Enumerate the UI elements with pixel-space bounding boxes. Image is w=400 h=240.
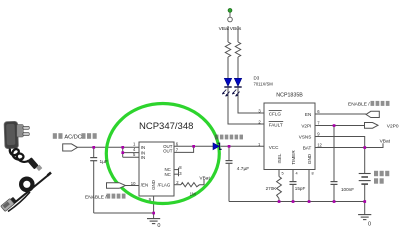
wire: C4 branch from V2P0 node (333, 126, 335, 182)
svg-text:ISEL: ISEL (277, 153, 282, 163)
wire: VSNS pin 9 to BAT net (315, 137, 365, 148)
resistor R4 (VBat column) (225, 42, 230, 57)
label: U2 pin numbers 3 2 1 (258, 108, 261, 146)
wire: VBus column mid (237, 57, 239, 78)
svg-text:OUT: OUT (163, 149, 173, 154)
wire: NC pin 8 stub (174, 169, 179, 171)
label: U2 FAULT pin with overline (269, 122, 284, 128)
svg-text:1µF: 1µF (100, 159, 108, 165)
wire: V2P0 pin 7 to port (315, 125, 365, 127)
node: junction pin4 branch (121, 151, 124, 154)
node: junction R3/rail (278, 200, 281, 203)
label: U2 bottom pins ISEL TIMER GND (277, 150, 312, 165)
resistor R5 (VBus column) (235, 42, 240, 57)
label: 肖特基二极管 (schottky diode) (215, 135, 243, 140)
wire: right ground rail (229, 201, 365, 203)
node: junction left ground (152, 212, 155, 215)
label: ENABLE /背光模块 (bottom left) (85, 194, 126, 201)
green highlight circle (106, 104, 219, 204)
wire: VBus column to CFLG pin 3 (238, 88, 264, 113)
svg-text:BAT: BAT (303, 146, 312, 151)
photo: coiled USB cable second strand (8, 192, 30, 212)
svg-text:15pF: 15pF (295, 186, 306, 191)
op-amp U1 NCP347/348 box (139, 142, 174, 196)
svg-text:EN: EN (305, 112, 311, 117)
node: junction C3/rail (292, 200, 295, 203)
wire: C4 bottom lead (333, 185, 335, 202)
svg-text:GND: GND (151, 180, 156, 190)
svg-text:GND: GND (307, 153, 312, 164)
svg-text:1M: 1M (190, 191, 196, 196)
resistor R3 270K (ISEL) (277, 177, 282, 199)
svg-text:270K: 270K (266, 186, 278, 191)
wire: input port to IN pin 1 (77, 146, 139, 148)
label: U1 OUT pins (163, 144, 173, 154)
capacitor C4 100nF (331, 182, 338, 185)
wire: to pin 5 (123, 156, 139, 158)
photo: adapter cable knot (10, 149, 29, 162)
photo: wall AC/DC adapter body (4, 121, 23, 148)
svg-text:D3: D3 (254, 76, 260, 81)
node: junction GND/rail (308, 200, 311, 203)
label: U1 pin numbers 6 7 (176, 141, 179, 152)
svg-text:ENABLE /: ENABLE / (348, 102, 370, 108)
wire: VBat column top (227, 26, 229, 42)
wire: right ground stem (364, 202, 366, 215)
wire: C1 bottom lead to ground rail (93, 161, 95, 213)
photo: adapter cable mini-USB connector (27, 157, 42, 171)
svg-text:NCP347/348: NCP347/348 (139, 121, 193, 132)
svg-text:VCC: VCC (269, 145, 279, 150)
node: junction VSNS/BAT (363, 146, 366, 149)
svg-text:ENABLE /: ENABLE / (85, 194, 107, 200)
svg-text:VSNS: VSNS (299, 135, 312, 140)
node: junction battery/rail (363, 200, 366, 203)
LED D2 (VBus column) (232, 78, 242, 96)
svg-text:5: 5 (282, 172, 284, 176)
svg-text:VBat: VBat (380, 138, 391, 144)
wire: VBus column top (237, 26, 239, 42)
label: U1 pin numbers 1 4 5 (133, 141, 136, 157)
wire: C1 top lead (93, 147, 95, 157)
photo: USB-A plug bottom-left (1, 197, 17, 212)
svg-text:10: 10 (131, 181, 136, 186)
wire: battery bottom lead (364, 184, 366, 201)
capacitor C3 15pF (290, 182, 297, 185)
svg-text:8: 8 (312, 172, 314, 176)
op-amp U2 NCP1835B box (264, 103, 315, 170)
wire: OUT pin 6 to diode anode (174, 145, 213, 147)
svg-text:VBat: VBat (199, 175, 210, 181)
wire: C2 bottom lead (228, 164, 230, 202)
wire: battery top lead (364, 148, 366, 174)
resistor R2 1M (/FLAG pull-up) (181, 183, 200, 187)
svg-text:TIMER: TIMER (291, 150, 296, 165)
photo: adapter plug prongs (23, 126, 29, 135)
svg-text:4: 4 (296, 172, 298, 176)
wire: U1 GND pin stub to ground (153, 196, 155, 218)
wire: GND pin stub U2 (308, 170, 310, 202)
test point / power flag at top (228, 9, 233, 22)
label: NC pin numbers 8 3 (179, 165, 182, 176)
svg-text:CFLG: CFLG (269, 111, 282, 116)
label: 锂离子 电池 (Li-ion battery) (374, 171, 389, 184)
port: ENABLE input (EN pin 6) (366, 111, 379, 117)
photo: coiled USB cable straight run (5, 175, 49, 211)
label: U2 right pins EN V2PI VSNS BAT (299, 112, 312, 151)
photo: USB cable top end tip (48, 173, 52, 176)
svg-text:12: 12 (317, 143, 322, 148)
label: U1 IN pins (141, 145, 145, 160)
wire: EN pin 6 to port (315, 113, 366, 115)
port: AC/DC adapter input connector (63, 144, 78, 151)
ground (right, under battery) (358, 215, 371, 220)
LED D1 (VBat column) (222, 78, 232, 96)
node: junction input/C1 (92, 146, 95, 149)
wire: ISEL stub (278, 170, 280, 177)
port: /EN enable input (pin 10) (107, 183, 126, 189)
node: junction pin1 branch (121, 146, 124, 149)
svg-text:4.7µF: 4.7µF (237, 166, 249, 172)
label: U1 /EN GND /FLAG (141, 180, 171, 190)
label: U2 pin numbers 6 7 9 12 (317, 109, 322, 148)
node: junction V2P0/C4 (333, 124, 336, 127)
wire: NC pin 3 stub (174, 173, 179, 175)
wire: left ground rail (94, 212, 154, 214)
svg-text:NC: NC (164, 172, 170, 177)
svg-text:0: 0 (157, 223, 160, 228)
label: U2 CFLG pin with overline (269, 111, 282, 117)
svg-text:V2P0: V2P0 (387, 123, 399, 129)
wire: C3 bottom lead (292, 185, 294, 202)
node: junction C4/rail (333, 200, 336, 203)
wire: to pin 4 (123, 152, 139, 154)
wire: VBat column to FAULT pin 2 (228, 88, 264, 124)
photo: coiled USB cable ring (21, 179, 32, 190)
wire: R2 to VBat riser (200, 180, 205, 185)
wire: branch down to IN pins 4,5 (122, 147, 124, 157)
capacitor C1 1uF (90, 158, 97, 161)
wire: R3 bottom lead (278, 199, 280, 202)
svg-text:/FLAG: /FLAG (158, 182, 171, 187)
svg-text:/EN: /EN (141, 182, 148, 187)
port: V2P0 output (pin 7) (365, 123, 379, 129)
svg-text:VBat: VBat (219, 26, 230, 32)
svg-text:VBus: VBus (230, 26, 242, 32)
svg-text:0: 0 (368, 222, 371, 228)
wire: /FLAG pin 2 lead (174, 184, 181, 186)
svg-text:100nF: 100nF (341, 187, 354, 192)
wire: C2 top lead (228, 146, 230, 160)
svg-text:7011X/SM: 7011X/SM (254, 81, 274, 86)
wire: OUT pin 7 joins pin 6 (174, 146, 194, 152)
svg-text:FAULT: FAULT (269, 122, 283, 127)
label: U2 bottom pin numbers 5 4 8 (282, 172, 314, 176)
svg-text:AC/DC: AC/DC (64, 135, 81, 141)
ground (left, under U1) (147, 219, 160, 224)
wire: TIMER stub (292, 170, 294, 182)
capacitor C2 4.7uF (226, 161, 233, 164)
svg-text:NCP1835B: NCP1835B (276, 92, 303, 98)
node: junction OUT6/OUT7 (192, 145, 195, 148)
wire: diode cathode to node (221, 145, 264, 147)
svg-text:IN: IN (141, 155, 145, 160)
svg-text:V2PI: V2PI (301, 124, 311, 129)
wire: NC join (178, 168, 180, 177)
wire: VBat column mid (227, 57, 229, 78)
svg-text:IN: IN (141, 145, 145, 150)
node: junction diode/C2/VCC (228, 145, 231, 148)
wire: BAT pin 12 to VBat riser (315, 143, 383, 147)
battery BT1 (Li-ion) (359, 174, 371, 185)
schottky diode D4 (213, 143, 222, 150)
label: 携式AC/DC适配器 (portable AC/DC adapter) (53, 133, 97, 141)
label: U1 NC pins (164, 167, 170, 177)
wire: /EN port stub pin 10 (126, 185, 140, 187)
label: ENABLE / 背光模块 (top right) (348, 101, 390, 108)
